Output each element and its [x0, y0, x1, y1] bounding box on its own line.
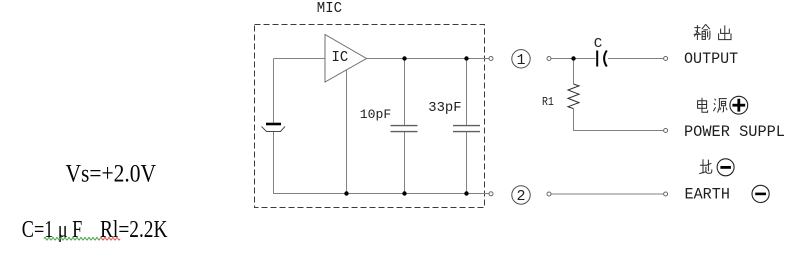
- svg-text:Vs=+2.0V: Vs=+2.0V: [66, 161, 157, 188]
- svg-text:OUTPUT: OUTPUT: [684, 50, 738, 68]
- svg-text:C: C: [594, 36, 603, 52]
- svg-text:IC: IC: [332, 50, 349, 66]
- svg-text:R1: R1: [542, 95, 554, 109]
- svg-text:33pF: 33pF: [428, 101, 461, 116]
- svg-text:EARTH: EARTH: [685, 185, 730, 203]
- svg-text:1: 1: [516, 52, 525, 69]
- svg-text:10pF: 10pF: [360, 107, 391, 122]
- svg-text:2: 2: [516, 188, 525, 205]
- svg-text:MIC: MIC: [317, 0, 342, 17]
- svg-text:POWER SUPPL: POWER SUPPL: [684, 123, 785, 141]
